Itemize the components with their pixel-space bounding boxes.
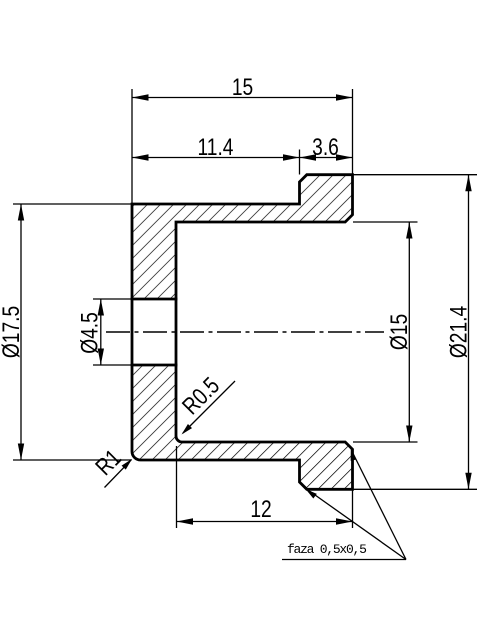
chamfer note faza 0,5x0,5 <box>282 448 406 560</box>
svg-text:11.4: 11.4 <box>198 133 234 161</box>
dimension dia 21.4 <box>353 175 477 490</box>
svg-text:Ø15: Ø15 <box>385 314 413 350</box>
svg-text:3.6: 3.6 <box>312 133 339 161</box>
svg-text:faza 0,5x0,5: faza 0,5x0,5 <box>287 542 366 557</box>
section upper half (hatched) <box>132 175 353 299</box>
dimension dia 17.5 <box>0 204 131 460</box>
dimension 11.4 <box>132 133 353 175</box>
svg-text:12: 12 <box>250 495 271 523</box>
dimension 3.6 <box>300 133 353 161</box>
wall inner face edge across hole <box>175 298 178 367</box>
svg-text:Ø4.5: Ø4.5 <box>75 312 103 354</box>
svg-text:Ø17.5: Ø17.5 <box>0 306 25 358</box>
svg-text:Ø21.4: Ø21.4 <box>444 306 472 358</box>
dimension 12 <box>177 446 353 528</box>
left end face edge across hole <box>131 298 134 367</box>
section lower half (hatched) <box>132 365 353 489</box>
leader R0.5 <box>177 372 235 437</box>
dimension 15 <box>132 73 353 203</box>
leader R1 <box>90 444 134 488</box>
centerline <box>106 331 384 333</box>
dimension dia 4.5 <box>75 299 131 365</box>
dimension dia 15 <box>353 222 418 442</box>
svg-text:15: 15 <box>232 73 253 101</box>
